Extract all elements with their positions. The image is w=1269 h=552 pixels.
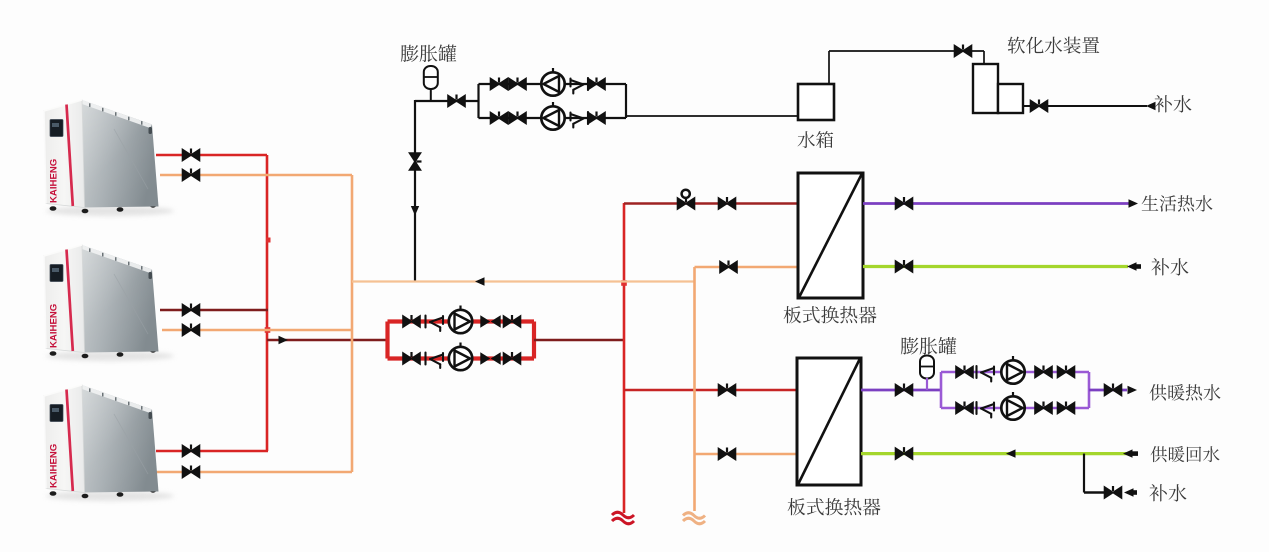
- valve RV3-2: [504, 352, 521, 364]
- motor valve MV1: [678, 197, 695, 209]
- valve HV3: [183, 304, 200, 316]
- valve HV2: [183, 169, 200, 181]
- wire domestic hot water line: [863, 202, 1129, 205]
- label 补水 (top): [1154, 95, 1191, 112]
- wire black header to loop: [415, 100, 479, 102]
- wire loop L2 right riser: [532, 322, 536, 359]
- valve HWV2-1: [1035, 366, 1052, 378]
- wire loop L3 left riser: [940, 372, 943, 408]
- valve HV4: [183, 324, 200, 336]
- wire heating return line: [861, 452, 1128, 455]
- label 补水 (bottom): [1149, 484, 1186, 501]
- valve RV5: [719, 384, 736, 396]
- softener tall vessel: [973, 64, 998, 113]
- pump P1 (top loop): [541, 68, 564, 96]
- valve V4-1: [509, 78, 526, 90]
- valve GV1: [896, 260, 913, 272]
- return flow arrow: [1006, 449, 1016, 457]
- valve OV1: [720, 261, 737, 273]
- valve V7: [1031, 100, 1048, 112]
- wire loop L2 left riser: [385, 322, 389, 359]
- valve V6: [955, 45, 972, 57]
- wire loop L1 left riser: [477, 84, 479, 118]
- wire loop L3 bottom branch: [941, 407, 1089, 410]
- valve V2 (vertical): [410, 153, 422, 170]
- check valve CK2: [571, 112, 589, 128]
- label 板式换热器 (upper): [784, 306, 877, 323]
- valve HWV1-1: [956, 366, 973, 378]
- wire ET2 stem: [926, 378, 928, 390]
- wire makeup branch drop: [1083, 454, 1085, 493]
- valve HWV2-2: [1035, 402, 1052, 414]
- valve V4-2: [509, 112, 526, 124]
- pump P2 (top loop): [541, 102, 564, 130]
- valve HV1: [183, 149, 200, 161]
- makeup stub (mid): [1135, 264, 1141, 269]
- makeup arrow (mid): [1127, 262, 1137, 270]
- valve V3-1: [491, 78, 508, 90]
- expansion tank ET2: [920, 356, 934, 379]
- label 补水 (mid): [1151, 258, 1188, 275]
- label 膨胀罐 (top): [401, 45, 456, 63]
- valve V1: [448, 95, 465, 107]
- label 膨胀罐 (heating): [901, 337, 956, 355]
- wire softener outlet: [1023, 105, 1147, 107]
- valve OV2: [719, 448, 736, 460]
- wire unit2 hot supply: [160, 309, 268, 312]
- check valve HCK2: [977, 402, 995, 418]
- label 板式换热器 (lower): [788, 498, 881, 515]
- motor valve actuator: [682, 190, 690, 198]
- wire loop L3 top branch: [941, 371, 1089, 374]
- wire tank to softener header: [829, 50, 984, 52]
- wire makeup branch run: [1084, 491, 1105, 494]
- wire makeup line to HX1: [863, 265, 1128, 268]
- wire unit2 return: [162, 329, 352, 332]
- junction dot riser/orange crossing: [621, 280, 627, 286]
- valve RV3-1: [504, 315, 521, 327]
- orange pipe break symbol: [683, 513, 705, 524]
- valve PV1: [896, 197, 913, 209]
- label 供暖回水: [1151, 446, 1220, 462]
- valve RV1-1: [403, 315, 420, 327]
- valve RV1-2: [403, 352, 420, 364]
- valve GV2: [896, 447, 913, 459]
- check valve RCK1: [426, 316, 444, 332]
- valve V5-2: [588, 112, 605, 124]
- wire orange trunk riser: [351, 175, 354, 472]
- wire ET1 stem: [430, 89, 432, 102]
- wire red feed to HX1: [624, 202, 798, 205]
- DHW arrow: [1129, 199, 1139, 207]
- wire orange feed to HX2: [695, 453, 798, 456]
- flow arrow down: [411, 206, 419, 216]
- wire unit1 return: [160, 174, 352, 177]
- check valve RCK2: [426, 353, 444, 369]
- heating supply arrow: [1128, 386, 1138, 394]
- valve HWV3-1: [1058, 366, 1075, 378]
- wire main hot supply header: [267, 339, 389, 342]
- wire softener inlet drop: [983, 51, 985, 64]
- wire unit3 return: [156, 471, 352, 474]
- heating return stub: [1132, 451, 1138, 456]
- wire red trunk riser: [266, 155, 269, 451]
- flow arrow right (supply): [279, 336, 289, 344]
- wire loop L1 bottom branch: [479, 117, 627, 119]
- wire pipe loop to water tank: [626, 115, 798, 117]
- makeup arrow (top): [1146, 102, 1156, 110]
- junction nub trunk: [266, 238, 271, 243]
- red pipe break symbol: [612, 512, 634, 524]
- valve HV5: [183, 445, 200, 457]
- wire black drop to orange header: [414, 100, 416, 282]
- valve PV3: [1105, 384, 1122, 396]
- flow arrow left (return): [475, 277, 485, 285]
- label 水箱: [798, 131, 834, 148]
- heat pump unit 1: [44, 100, 174, 216]
- pump HP2 (heating loop): [1001, 392, 1024, 420]
- butterfly valve RV2-2: [481, 354, 500, 364]
- valve RV4: [719, 197, 736, 209]
- wire orange transfer header: [352, 280, 695, 282]
- check valve CK1: [571, 78, 589, 94]
- expansion tank ET1: [424, 66, 438, 89]
- wire red distribution riser: [623, 203, 626, 513]
- wire loop L2 bottom branch: [388, 356, 535, 360]
- wire orange distribution riser: [693, 267, 696, 511]
- water tank: [798, 84, 834, 120]
- pump RP1 (red loop): [449, 306, 472, 334]
- valve HWV3-2: [1058, 402, 1075, 414]
- wire heating supply outlet: [1089, 389, 1127, 392]
- makeup arrow (bottom): [1124, 488, 1134, 496]
- heat pump unit 2: [44, 245, 174, 361]
- wire loop L3 right riser: [1088, 372, 1091, 408]
- wire heating supply from HX2: [861, 389, 941, 392]
- wire unit1 hot supply: [156, 154, 267, 157]
- pump HP1 (heating loop): [1001, 356, 1024, 384]
- label 软化水装置: [1008, 37, 1100, 54]
- pump RP2 (red loop): [449, 343, 472, 371]
- label 供暖热水: [1150, 384, 1221, 401]
- plate heat exchanger HX2: [797, 358, 861, 485]
- softener short vessel: [998, 84, 1023, 113]
- wire unit3 hot supply: [156, 450, 268, 453]
- valve PV2: [896, 384, 913, 396]
- wire loop L2 outlet: [534, 339, 625, 342]
- butterfly valve RV2-1: [481, 317, 500, 327]
- makeup stub (bottom): [1131, 490, 1137, 495]
- wire tank top riser: [828, 51, 830, 84]
- valve HV6: [183, 466, 200, 478]
- label 生活热水: [1142, 195, 1213, 212]
- plate heat exchanger HX1: [798, 173, 863, 298]
- heat pump unit 3: [44, 385, 174, 501]
- wire red feed to HX2: [624, 389, 797, 392]
- junction dot trunk/orange crossing: [265, 327, 271, 333]
- wire loop L1 right riser: [625, 84, 627, 118]
- wire orange feed to HX1: [695, 266, 799, 269]
- valve V5-1: [588, 78, 605, 90]
- heating return arrow: [1123, 449, 1133, 457]
- valve V3-2: [491, 112, 508, 124]
- wire loop L2 top branch: [388, 319, 535, 323]
- check valve HCK1: [977, 366, 995, 382]
- valve MU1: [1105, 486, 1122, 498]
- valve HWV1-2: [956, 402, 973, 414]
- wire loop L1 top branch: [479, 83, 627, 85]
